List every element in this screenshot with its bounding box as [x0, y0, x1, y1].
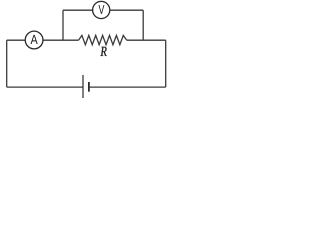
- wire: main left horizontal from left corner to ammeter: [7, 39, 26, 41]
- ammeter A: letter label: [31, 35, 38, 44]
- wire: voltmeter branch top left horizontal: [63, 9, 93, 11]
- wire: bottom left horizontal to battery: [7, 86, 83, 88]
- resistor R: value label R: [100, 47, 106, 56]
- voltmeter V: letter label: [98, 5, 104, 14]
- battery cell: short thick plate (negative): [88, 82, 90, 92]
- wire: resistor to right corner (through node below voltmeter leg): [127, 39, 166, 41]
- battery cell: long thin plate (positive): [82, 75, 84, 98]
- wire: right vertical side: [165, 40, 167, 87]
- voltmeter V: circle: [93, 1, 110, 18]
- wire: ammeter to resistor: [43, 39, 79, 41]
- wire: bottom right horizontal from battery: [89, 86, 166, 88]
- resistor R: zigzag element: [79, 35, 127, 44]
- wire: voltmeter branch top right horizontal: [110, 9, 143, 11]
- wire: voltmeter branch right leg down to main wire: [142, 10, 144, 40]
- wire: left vertical side: [6, 40, 8, 87]
- node: junction of voltmeter branch left leg with main wire: [62, 10, 64, 40]
- ammeter A: circle: [25, 31, 43, 49]
